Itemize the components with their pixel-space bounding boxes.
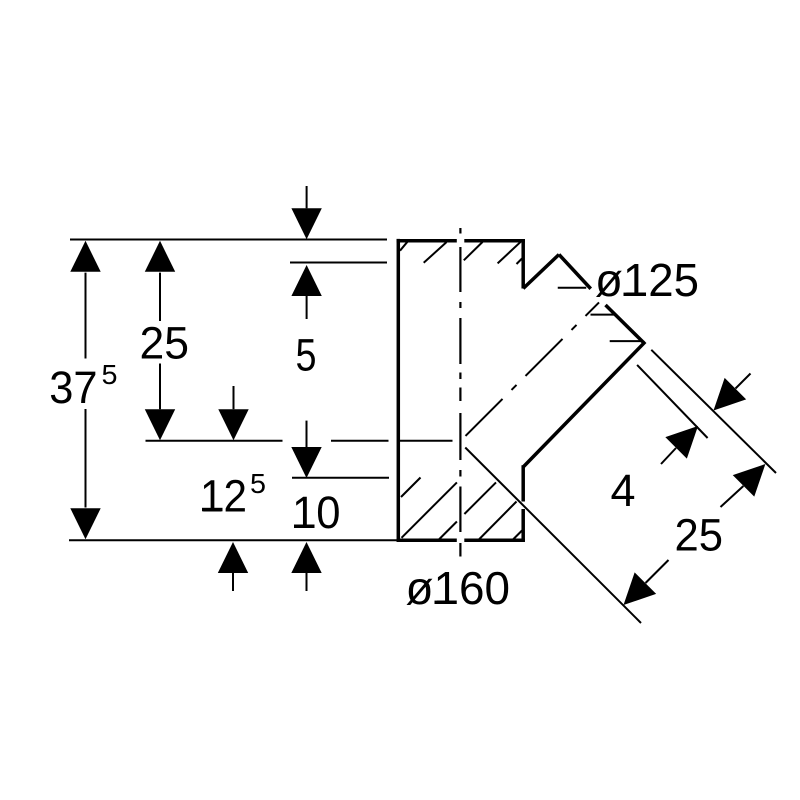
dimension 12.5 line upper — [233, 386, 235, 409]
branch notch edge — [523, 255, 559, 289]
dimension 5 arrow down — [291, 208, 321, 239]
hatch top band 1 — [400, 241, 408, 250]
dimension 10 arrow up below bottom line — [291, 542, 321, 573]
dimension 25 (socket depth) arrow lower — [624, 572, 657, 605]
dimension 25 line — [159, 273, 161, 410]
body outline top edge — [397, 239, 525, 243]
hatch bottom zone 4 — [478, 502, 516, 541]
svg-text:37: 37 — [49, 362, 97, 413]
dimension 4 arrow lower — [665, 426, 698, 459]
bottom dimension reference line — [69, 539, 397, 541]
dimension 4 arrow upper — [714, 378, 747, 411]
dimension 5 upper tail — [306, 186, 308, 208]
svg-text:25: 25 — [140, 318, 190, 369]
mouth hatch line 3 — [610, 340, 644, 342]
dimension 5 lower tail — [306, 296, 308, 319]
dimension 25 (socket depth) arrow upper — [733, 464, 766, 497]
top dimension reference line (37.5/25 datum) — [70, 239, 387, 241]
dimension 25 arrow down — [145, 409, 175, 440]
body outline bottom edge — [397, 538, 525, 542]
serif foot for digit 1 of 125 — [624, 293, 645, 296]
dimension 25 (socket depth) upper tail — [721, 486, 744, 507]
dimension 4 lower tail — [661, 448, 676, 464]
svg-text:5: 5 — [102, 359, 118, 390]
reference line at 25/12.5 level — [146, 440, 389, 442]
svg-text:25: 25 — [675, 510, 724, 561]
leader line for diameter 125 — [558, 287, 587, 289]
dimension 5 arrow up — [291, 265, 321, 296]
body outline left edge — [397, 239, 401, 542]
svg-text:12: 12 — [200, 470, 247, 521]
svg-text:5: 5 — [296, 330, 317, 381]
body outline right edge upper — [521, 239, 525, 289]
body outline right edge lower — [521, 465, 525, 542]
reference line for dimension 10 — [292, 477, 389, 479]
dimension 10 upper tail — [306, 421, 308, 448]
branch centerline (dash-dot at 45 deg) — [466, 302, 600, 436]
svg-text:ø125: ø125 — [595, 254, 699, 306]
svg-text:5: 5 — [250, 468, 266, 499]
serif foot for digit 1 of 12 — [202, 508, 223, 512]
svg-text:ø160: ø160 — [406, 562, 511, 614]
mouth hatch line 2 — [591, 314, 615, 316]
hatch bottom zone 2 — [402, 482, 457, 537]
hatch bottom zone 1 — [401, 478, 421, 498]
dimension 10 arrow down — [291, 447, 321, 478]
reference line for dimension 5 — [290, 262, 387, 264]
svg-text:10: 10 — [292, 487, 341, 538]
hatch bottom zone 3 left — [438, 522, 457, 541]
hatch bottom zone 5 — [513, 531, 523, 541]
extension line B — [637, 365, 708, 438]
branch mouth face segment 1 — [559, 255, 591, 289]
serif foot for digit 1 of 10 — [294, 525, 315, 529]
dimension 25 (socket depth) lower tail — [646, 560, 669, 583]
vertical centerline (dash-dot) — [459, 228, 461, 557]
dimension 25 arrow up — [145, 241, 175, 272]
dimension 37.5 line — [85, 273, 87, 508]
svg-text:4: 4 — [611, 465, 636, 516]
hatch top band 5 — [517, 259, 523, 265]
hatch top band 4 — [498, 242, 521, 264]
dimension 4 upper tail — [736, 374, 751, 389]
dimension 12.5 lower tail — [232, 573, 234, 591]
dimension 10 lower tail — [306, 573, 308, 591]
extension line A (mouth face extension) — [651, 350, 776, 473]
hatch top band 2 — [424, 242, 447, 263]
dimension 37.5 arrow down — [70, 508, 100, 539]
hatch top band 3 — [464, 242, 483, 260]
hatch bottom zone 3 right — [464, 482, 496, 514]
dimension 37.5 arrow up — [70, 241, 100, 272]
branch mouth face segment 2 — [606, 305, 645, 343]
dimension 12.5 arrow down — [218, 409, 248, 440]
dimension 12.5 arrow up below bottom line — [218, 542, 248, 573]
serif foot for digit 1 of 160 — [435, 601, 456, 604]
branch lower wall edge — [523, 342, 645, 467]
interior socket shoulder line — [400, 440, 453, 442]
extension line E2 (socket shoulder, 45 deg) — [465, 448, 641, 624]
